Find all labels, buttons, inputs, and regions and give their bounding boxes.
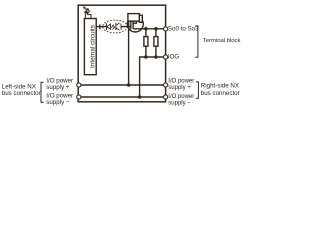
resistor R1 (144, 29, 148, 57)
node tick (99, 24, 101, 29)
svg-text:Right-side NX: Right-side NX (201, 82, 239, 89)
svg-text:bus connector: bus connector (2, 90, 41, 97)
bracket right-side NX (196, 82, 199, 98)
photocoupler phototransistor (116, 23, 121, 31)
svg-text:I/O power: I/O power (168, 94, 194, 100)
FET channel plate (132, 20, 134, 29)
terminal right minus (164, 95, 168, 99)
svg-text:supply −: supply − (168, 101, 191, 107)
terminal IOG (164, 55, 168, 59)
terminal So0-So3 (164, 27, 168, 31)
terminal left plus (77, 83, 81, 87)
svg-text:supply +: supply + (168, 85, 191, 91)
junction dots (127, 27, 158, 99)
node resistor tops (144, 27, 148, 31)
internal circuits block U1 (84, 19, 96, 75)
node pulldown to plus rail (127, 83, 131, 87)
wire gate pulldown (128, 22, 130, 86)
transistor Q1 output FET circle (127, 16, 143, 32)
node IOG to minus rail (138, 95, 142, 99)
terminal right plus (164, 83, 168, 87)
svg-text:Internal circuits: Internal circuits (89, 25, 96, 68)
bracket left-side NX (41, 82, 44, 102)
svg-text:So0 to So3: So0 to So3 (168, 25, 199, 32)
svg-text:IOG: IOG (168, 54, 180, 61)
photocoupler PC1 dashed outline (103, 20, 128, 33)
svg-text:bus connector: bus connector (201, 90, 240, 97)
FET gate plate (130, 20, 132, 29)
photocoupler light arrows (111, 25, 115, 30)
svg-text:supply −: supply − (46, 99, 70, 106)
photocoupler LED D1 (107, 23, 111, 30)
wire rail I/O power plus (81, 84, 164, 86)
driver block box A (128, 14, 139, 22)
wire output to So terminal (133, 28, 163, 30)
svg-text:I/O power: I/O power (168, 79, 194, 85)
terminal circles (77, 27, 168, 99)
svg-text:Terminal block: Terminal block (203, 38, 241, 44)
resistor R2 (154, 29, 158, 57)
wire gate drive (96, 26, 107, 28)
wire IOG return (140, 57, 164, 97)
bracket terminal block (195, 26, 198, 57)
wire rail I/O power minus (81, 96, 164, 98)
driver block box B (139, 15, 142, 22)
FET drain stub (133, 21, 136, 24)
unit outline box (78, 5, 165, 102)
indicator LED icon (83, 6, 91, 18)
terminal left minus (77, 95, 81, 99)
node resistor bottoms (144, 55, 148, 59)
svg-text:supply +: supply + (46, 84, 70, 91)
